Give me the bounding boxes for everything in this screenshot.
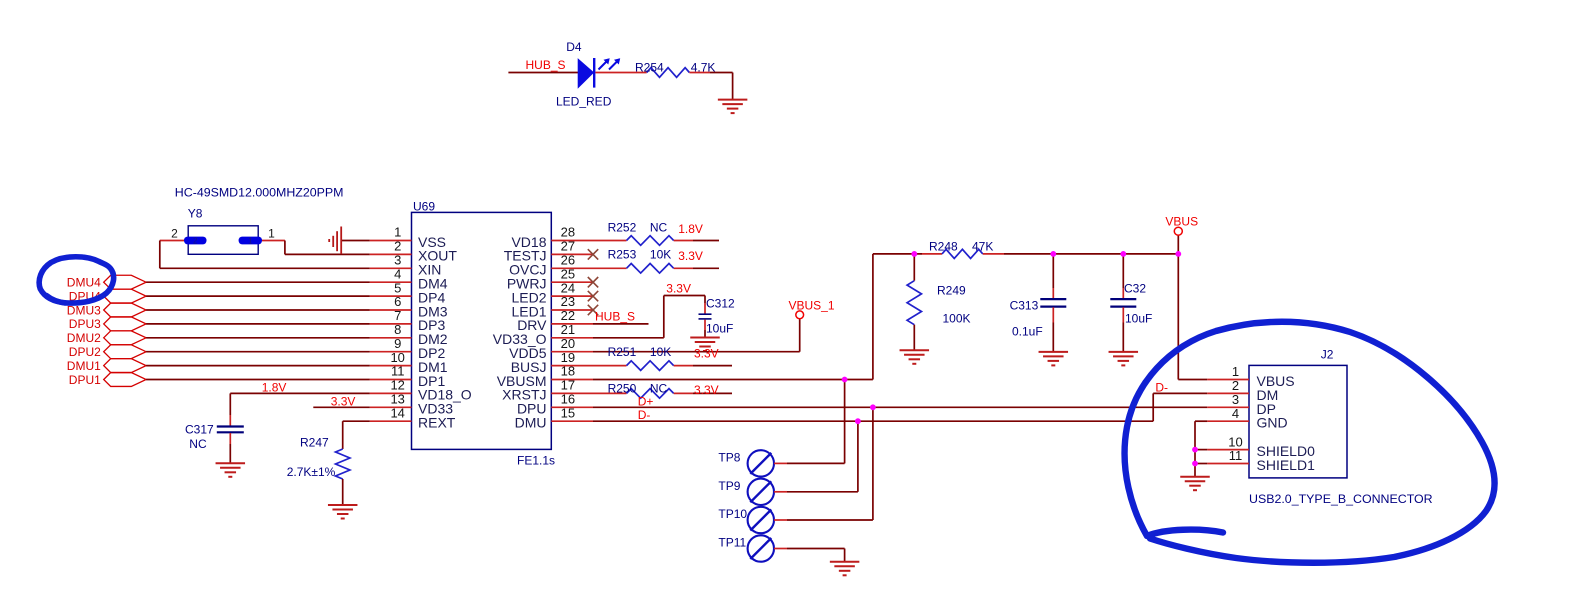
- svg-text:C312: C312: [706, 297, 735, 311]
- svg-text:0.1uF: 0.1uF: [1012, 325, 1043, 339]
- svg-text:4.7K: 4.7K: [691, 61, 716, 75]
- svg-text:2: 2: [394, 239, 401, 254]
- svg-text:VBUS_1: VBUS_1: [789, 299, 835, 313]
- svg-text:DPU3: DPU3: [69, 317, 101, 331]
- svg-text:2.7K±1%: 2.7K±1%: [287, 465, 336, 479]
- svg-text:DMU1: DMU1: [67, 359, 101, 373]
- svg-text:14: 14: [390, 405, 404, 420]
- svg-text:7: 7: [394, 308, 401, 323]
- svg-text:R252: R252: [608, 221, 637, 235]
- svg-text:HUB_S: HUB_S: [526, 58, 566, 72]
- svg-text:5: 5: [394, 280, 401, 295]
- svg-text:R253: R253: [608, 248, 637, 262]
- svg-text:GND: GND: [1257, 415, 1288, 431]
- svg-text:10K: 10K: [650, 248, 671, 262]
- svg-text:10uF: 10uF: [1125, 312, 1152, 326]
- svg-text:47K: 47K: [972, 240, 993, 254]
- svg-text:10: 10: [390, 350, 404, 365]
- svg-text:Y8: Y8: [188, 207, 203, 221]
- svg-text:DMU4: DMU4: [67, 276, 101, 290]
- svg-text:1: 1: [268, 227, 275, 241]
- svg-text:SHIELD1: SHIELD1: [1257, 457, 1316, 473]
- svg-text:DPU2: DPU2: [69, 345, 101, 359]
- svg-text:D4: D4: [566, 40, 582, 54]
- svg-text:D+: D+: [638, 395, 654, 409]
- svg-text:NC: NC: [650, 221, 668, 235]
- svg-text:9: 9: [394, 336, 401, 351]
- svg-text:TP8: TP8: [718, 450, 740, 464]
- svg-text:C313: C313: [1010, 299, 1039, 313]
- svg-text:J2: J2: [1321, 348, 1334, 362]
- svg-text:4: 4: [1232, 406, 1239, 421]
- svg-text:25: 25: [561, 266, 575, 281]
- svg-text:10uF: 10uF: [706, 322, 733, 336]
- svg-text:1: 1: [1232, 364, 1239, 379]
- svg-text:17: 17: [561, 378, 575, 393]
- svg-text:R248: R248: [929, 240, 958, 254]
- svg-text:R251: R251: [608, 345, 637, 359]
- svg-text:13: 13: [390, 392, 404, 407]
- svg-text:VBUS: VBUS: [1165, 215, 1198, 229]
- svg-text:LED_RED: LED_RED: [556, 95, 612, 109]
- svg-text:R250: R250: [608, 382, 637, 396]
- svg-text:NC: NC: [189, 437, 207, 451]
- svg-text:10: 10: [1228, 434, 1242, 449]
- svg-text:DMU2: DMU2: [67, 331, 101, 345]
- svg-text:D-: D-: [638, 408, 651, 422]
- svg-text:1.8V: 1.8V: [262, 381, 287, 395]
- svg-text:21: 21: [561, 322, 575, 337]
- svg-text:4: 4: [394, 266, 401, 281]
- svg-text:26: 26: [561, 253, 575, 268]
- svg-text:R254: R254: [635, 61, 664, 75]
- svg-text:10K: 10K: [650, 345, 671, 359]
- svg-text:USB2.0_TYPE_B_CONNECTOR: USB2.0_TYPE_B_CONNECTOR: [1249, 492, 1433, 506]
- svg-text:TP10: TP10: [718, 507, 747, 521]
- svg-text:R249: R249: [937, 284, 966, 298]
- svg-text:TP11: TP11: [718, 536, 746, 550]
- svg-text:12: 12: [390, 378, 404, 393]
- svg-text:3: 3: [394, 253, 401, 268]
- svg-text:DPU1: DPU1: [69, 373, 101, 387]
- svg-text:24: 24: [561, 280, 575, 295]
- svg-text:2: 2: [193, 237, 198, 246]
- svg-text:HC-49SMD12.000MHZ20PPM: HC-49SMD12.000MHZ20PPM: [175, 186, 344, 200]
- svg-text:6: 6: [394, 294, 401, 309]
- svg-text:TP9: TP9: [718, 479, 740, 493]
- svg-text:28: 28: [561, 225, 575, 240]
- svg-text:3.3V: 3.3V: [694, 347, 719, 361]
- svg-text:NC: NC: [650, 382, 668, 396]
- svg-text:2: 2: [171, 227, 178, 241]
- svg-text:11: 11: [1229, 448, 1243, 463]
- svg-text:100K: 100K: [943, 312, 971, 326]
- svg-text:C317: C317: [185, 423, 214, 437]
- svg-text:REXT: REXT: [418, 415, 456, 431]
- svg-text:16: 16: [561, 392, 575, 407]
- svg-text:19: 19: [561, 350, 575, 365]
- svg-text:15: 15: [561, 405, 575, 420]
- svg-text:3.3V: 3.3V: [694, 383, 719, 397]
- svg-text:3.3V: 3.3V: [666, 282, 691, 296]
- svg-text:3: 3: [1232, 392, 1239, 407]
- svg-text:1: 1: [248, 237, 253, 246]
- svg-text:23: 23: [561, 294, 575, 309]
- svg-text:18: 18: [561, 364, 575, 379]
- svg-text:D-: D-: [1155, 381, 1168, 395]
- svg-text:20: 20: [561, 336, 575, 351]
- svg-text:8: 8: [394, 322, 401, 337]
- svg-text:U69: U69: [413, 200, 435, 214]
- svg-text:FE1.1s: FE1.1s: [517, 454, 555, 468]
- svg-text:DMU: DMU: [515, 415, 547, 431]
- svg-text:HUB_S: HUB_S: [595, 310, 635, 324]
- svg-text:1.8V: 1.8V: [678, 222, 703, 236]
- svg-text:3.3V: 3.3V: [331, 395, 356, 409]
- svg-text:11: 11: [391, 364, 405, 379]
- svg-text:R247: R247: [300, 436, 329, 450]
- svg-text:27: 27: [561, 239, 575, 254]
- svg-text:2: 2: [1232, 378, 1239, 393]
- svg-text:C32: C32: [1124, 282, 1146, 296]
- svg-text:22: 22: [561, 308, 575, 323]
- svg-text:1: 1: [394, 225, 401, 240]
- svg-text:3.3V: 3.3V: [678, 249, 703, 263]
